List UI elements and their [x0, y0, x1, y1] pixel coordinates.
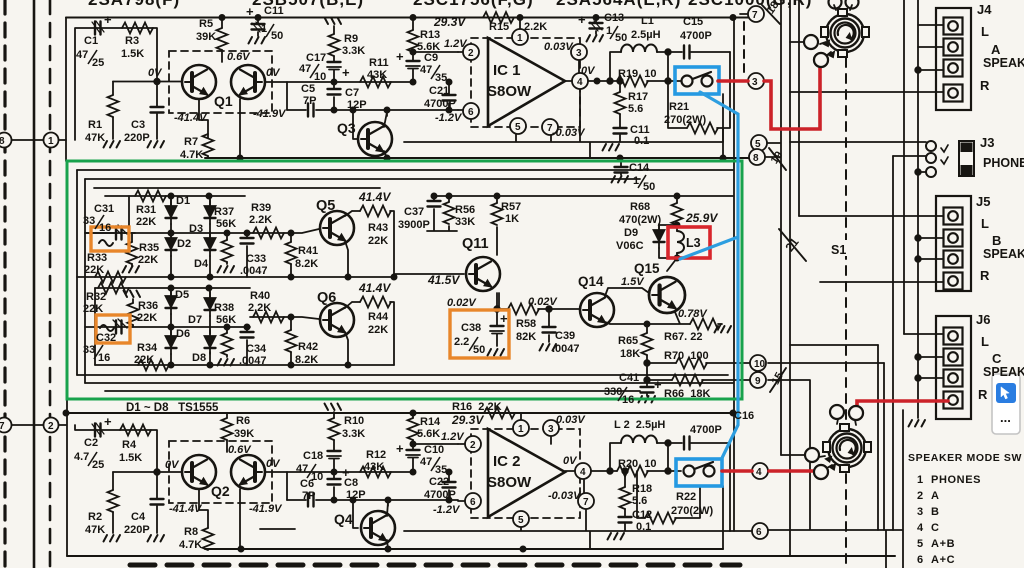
svg-text:S1: S1 [831, 243, 846, 257]
svg-text:1: 1 [261, 23, 267, 35]
svg-text:0.03V: 0.03V [544, 41, 574, 53]
svg-text:L3: L3 [686, 236, 701, 250]
svg-text:2.5µH: 2.5µH [631, 29, 661, 41]
svg-text:1.2V: 1.2V [441, 431, 465, 443]
svg-text:29.3V: 29.3V [451, 413, 484, 427]
svg-text:Q15: Q15 [634, 261, 660, 276]
svg-text:Q6: Q6 [317, 290, 336, 306]
svg-text:8.2K: 8.2K [295, 258, 318, 270]
svg-text:2: 2 [48, 421, 54, 432]
svg-text:-0.03V: -0.03V [552, 127, 586, 139]
svg-text:C37: C37 [404, 206, 424, 218]
svg-text:8.2K: 8.2K [295, 354, 318, 366]
svg-text:56K: 56K [216, 218, 236, 230]
svg-text:J4: J4 [977, 2, 992, 17]
svg-text:C18: C18 [303, 450, 323, 462]
svg-text:1.5V: 1.5V [621, 276, 645, 288]
svg-text:2SA564A(E,R): 2SA564A(E,R) [556, 0, 681, 9]
svg-text:6 A+C: 6 A+C [917, 554, 955, 566]
svg-text:1.5K: 1.5K [121, 48, 144, 60]
svg-text:41.4V: 41.4V [358, 190, 391, 204]
svg-text:R18: R18 [632, 483, 652, 495]
svg-text:R58: R58 [516, 318, 536, 330]
svg-text:3.3K: 3.3K [342, 428, 365, 440]
svg-text:0.02V: 0.02V [528, 296, 558, 308]
svg-text:C8: C8 [344, 477, 358, 489]
svg-text:4.7: 4.7 [74, 451, 89, 463]
svg-text:0V: 0V [563, 455, 578, 467]
svg-text:50: 50 [473, 344, 485, 356]
svg-text:R7: R7 [184, 136, 198, 148]
svg-text:R20 10: R20 10 [618, 458, 657, 470]
svg-text:33: 33 [83, 215, 95, 227]
svg-text:L: L [981, 334, 989, 349]
svg-text:Q4: Q4 [334, 511, 353, 527]
svg-text:R34: R34 [137, 342, 158, 354]
svg-text:5: 5 [518, 515, 524, 526]
svg-text:R16 2.2K: R16 2.2K [452, 401, 502, 413]
svg-text:R19 10: R19 10 [618, 68, 657, 80]
svg-text:B: B [992, 233, 1001, 248]
svg-text:SPEAK: SPEAK [983, 247, 1024, 261]
svg-text:D7: D7 [188, 314, 202, 326]
svg-text:R65: R65 [618, 335, 638, 347]
svg-text:D3: D3 [189, 223, 203, 235]
svg-text:C12: C12 [632, 509, 652, 521]
svg-text:Q1: Q1 [214, 93, 233, 109]
svg-text:8: 8 [753, 153, 759, 164]
svg-text:R14: R14 [420, 416, 441, 428]
svg-text:+: + [104, 414, 112, 429]
svg-text:C41: C41 [619, 372, 639, 384]
svg-text:C5: C5 [301, 83, 315, 95]
svg-text:R10: R10 [344, 415, 364, 427]
svg-text:5: 5 [755, 139, 761, 150]
svg-text:C16: C16 [734, 410, 754, 422]
svg-text:8: 8 [0, 136, 5, 147]
svg-text:2SA798(F): 2SA798(F) [88, 0, 180, 9]
svg-text:C10: C10 [424, 444, 444, 456]
svg-text:22K: 22K [84, 264, 104, 276]
svg-text:3: 3 [576, 48, 582, 59]
svg-text:6: 6 [470, 497, 476, 508]
svg-text:C9: C9 [424, 52, 438, 64]
svg-text:C22: C22 [429, 476, 449, 488]
svg-text:4 C: 4 C [917, 522, 940, 534]
svg-text:R43: R43 [368, 222, 388, 234]
svg-text:25: 25 [92, 459, 104, 471]
svg-text:R67. 22: R67. 22 [664, 331, 703, 343]
svg-text:C21: C21 [429, 85, 449, 97]
svg-text:1: 1 [48, 136, 54, 147]
svg-text:C15: C15 [683, 16, 703, 28]
svg-text:.0047: .0047 [552, 343, 580, 355]
svg-text:D4: D4 [194, 258, 209, 270]
svg-text:3900P: 3900P [398, 219, 430, 231]
svg-text:2.2: 2.2 [454, 336, 469, 348]
svg-text:3 B: 3 B [917, 506, 940, 518]
svg-text:J3: J3 [980, 135, 994, 150]
svg-text:22K: 22K [134, 354, 154, 366]
svg-text:16: 16 [99, 222, 111, 234]
svg-text:7: 7 [752, 10, 758, 21]
svg-text:29.3V: 29.3V [433, 15, 466, 29]
svg-text:C4: C4 [131, 511, 146, 523]
svg-text:22K: 22K [368, 235, 388, 247]
svg-text:SPEAK: SPEAK [983, 365, 1024, 379]
svg-text:R33: R33 [87, 252, 107, 264]
svg-text:R11: R11 [369, 57, 389, 69]
svg-text:R36: R36 [138, 300, 158, 312]
svg-text:16: 16 [98, 352, 110, 364]
svg-text:L: L [981, 24, 989, 39]
svg-text:R: R [980, 268, 990, 283]
svg-text:-0.03V: -0.03V [548, 490, 582, 502]
svg-text:2: 2 [470, 440, 476, 451]
svg-text:4700P: 4700P [424, 489, 456, 501]
svg-text:0.6V: 0.6V [228, 444, 252, 456]
svg-text:R41: R41 [298, 245, 318, 257]
svg-text:6: 6 [468, 107, 474, 118]
svg-text:47: 47 [420, 456, 432, 468]
svg-text:D1 ~ D8 TS1555: D1 ~ D8 TS1555 [126, 402, 219, 414]
svg-text:39K: 39K [234, 428, 254, 440]
svg-text:47K: 47K [85, 132, 105, 144]
svg-text:R31: R31 [136, 204, 156, 216]
svg-text:4: 4 [580, 467, 586, 478]
svg-text:1: 1 [518, 424, 524, 435]
svg-text:1K: 1K [505, 213, 519, 225]
svg-text:330: 330 [604, 386, 622, 398]
svg-text:-41.9V: -41.9V [253, 108, 287, 120]
svg-text:S8OW: S8OW [487, 474, 532, 491]
svg-text:R38: R38 [214, 302, 234, 314]
svg-text:SPEAK: SPEAK [983, 56, 1024, 70]
svg-text:R15: R15 [489, 21, 509, 33]
svg-text:C: C [992, 351, 1002, 366]
svg-text:270(2W): 270(2W) [664, 114, 707, 126]
svg-text:12P: 12P [347, 99, 367, 111]
svg-text:47: 47 [299, 63, 311, 75]
svg-text:R3: R3 [125, 35, 139, 47]
svg-text:R12: R12 [366, 449, 386, 461]
svg-text:R6: R6 [236, 415, 250, 427]
svg-text:C11: C11 [264, 5, 284, 17]
svg-text:4.7K: 4.7K [179, 539, 202, 551]
svg-text:5.6K: 5.6K [417, 428, 440, 440]
svg-text:C6: C6 [300, 478, 314, 490]
svg-text:A: A [991, 42, 1001, 57]
svg-text:D2: D2 [177, 238, 191, 250]
svg-text:2: 2 [468, 48, 474, 59]
svg-text:C13: C13 [604, 12, 624, 24]
svg-text:10: 10 [314, 71, 326, 83]
svg-text:12P: 12P [346, 489, 366, 501]
svg-text:0.1: 0.1 [634, 135, 649, 147]
svg-text:C38: C38 [461, 322, 481, 334]
svg-text:R40: R40 [250, 290, 270, 302]
svg-text:...: ... [1000, 410, 1011, 425]
svg-text:43K: 43K [364, 461, 384, 473]
svg-text:220P: 220P [124, 132, 150, 144]
svg-text:C2: C2 [84, 437, 98, 449]
svg-text:2.2K: 2.2K [248, 302, 271, 314]
svg-text:+: + [500, 311, 508, 326]
svg-text:4.7K: 4.7K [180, 149, 203, 161]
svg-text:R39: R39 [251, 202, 271, 214]
svg-text:1 PHONES: 1 PHONES [917, 474, 981, 486]
svg-text:R70 100: R70 100 [664, 350, 709, 362]
svg-text:R8: R8 [184, 526, 198, 538]
svg-text:56K: 56K [216, 314, 236, 326]
svg-text:6: 6 [756, 527, 762, 538]
svg-text:0V: 0V [266, 67, 281, 79]
svg-text:R4: R4 [122, 439, 137, 451]
svg-text:47: 47 [296, 463, 308, 475]
svg-text:3.3K: 3.3K [342, 45, 365, 57]
svg-text:R57: R57 [501, 201, 521, 213]
svg-text:4: 4 [756, 467, 762, 478]
svg-text:D1: D1 [176, 195, 190, 207]
svg-text:R68: R68 [630, 201, 650, 213]
svg-text:R22: R22 [676, 491, 696, 503]
svg-text:2 A: 2 A [917, 490, 940, 502]
svg-text:16: 16 [622, 394, 634, 406]
svg-text:.0047: .0047 [239, 355, 267, 367]
svg-text:35: 35 [435, 72, 447, 84]
svg-text:2SC1756(F,G): 2SC1756(F,G) [413, 0, 534, 9]
svg-text:0.03V: 0.03V [556, 414, 586, 426]
svg-text:22K: 22K [138, 254, 158, 266]
svg-text:7: 7 [0, 421, 5, 432]
svg-text:0V: 0V [165, 459, 180, 471]
svg-text:1: 1 [633, 175, 639, 187]
svg-text:R44: R44 [368, 311, 389, 323]
svg-text:R2: R2 [88, 511, 102, 523]
svg-text:-1.2V: -1.2V [435, 112, 463, 124]
svg-text:0V: 0V [148, 67, 163, 79]
svg-text:R66 18K: R66 18K [664, 388, 711, 400]
svg-text:0.6V: 0.6V [227, 51, 251, 63]
svg-text:7: 7 [583, 497, 589, 508]
svg-text:C3: C3 [131, 119, 145, 131]
svg-text:22K: 22K [137, 312, 157, 324]
svg-text:S8OW: S8OW [487, 83, 532, 100]
svg-text:4: 4 [577, 77, 583, 88]
svg-text:1.2V: 1.2V [444, 38, 468, 50]
svg-text:C39: C39 [555, 330, 575, 342]
svg-text:7: 7 [547, 123, 553, 134]
svg-text:-41.9V: -41.9V [249, 503, 283, 515]
svg-text:43K: 43K [367, 69, 387, 81]
svg-text:+: + [104, 12, 112, 27]
svg-text:7P: 7P [302, 490, 315, 502]
svg-text:J5: J5 [976, 194, 990, 209]
svg-text:-41.4V: -41.4V [174, 112, 208, 124]
svg-text:1: 1 [517, 33, 523, 44]
svg-text:50: 50 [271, 30, 283, 42]
svg-text:+: + [396, 441, 404, 456]
svg-text:C33: C33 [246, 253, 266, 265]
svg-text:C14: C14 [629, 162, 650, 174]
svg-text:R1: R1 [88, 119, 102, 131]
svg-text:D8: D8 [192, 352, 206, 364]
svg-text:47: 47 [420, 64, 432, 76]
svg-text:41.4V: 41.4V [358, 281, 391, 295]
svg-text:C7: C7 [345, 87, 359, 99]
svg-text:-41.4V: -41.4V [169, 503, 203, 515]
svg-text:3: 3 [548, 424, 554, 435]
svg-text:4700P: 4700P [424, 98, 456, 110]
svg-text:2SC1000(G,R): 2SC1000(G,R) [688, 0, 812, 9]
svg-text:50: 50 [643, 181, 655, 193]
svg-text:PHONE: PHONE [983, 156, 1024, 170]
svg-text:R5: R5 [199, 18, 213, 30]
svg-text:33: 33 [83, 344, 95, 356]
svg-text:1: 1 [606, 25, 612, 37]
svg-text:C1: C1 [84, 35, 98, 47]
svg-text:Q5: Q5 [316, 198, 335, 214]
svg-text:5.6: 5.6 [628, 103, 643, 115]
svg-text:4700P: 4700P [690, 424, 722, 436]
svg-text:R32: R32 [86, 291, 106, 303]
svg-text:33K: 33K [455, 216, 475, 228]
svg-text:25.9V: 25.9V [685, 211, 718, 225]
svg-text:0.78V: 0.78V [678, 308, 708, 320]
svg-text:10: 10 [754, 359, 766, 370]
svg-text:18K: 18K [620, 348, 640, 360]
svg-text:22K: 22K [136, 216, 156, 228]
svg-text:IC 1: IC 1 [493, 62, 521, 79]
svg-text:0V: 0V [266, 458, 281, 470]
svg-text:Q2: Q2 [211, 483, 230, 499]
svg-text:22K: 22K [83, 303, 103, 315]
svg-text:+: + [654, 377, 662, 392]
svg-text:V06C: V06C [616, 240, 644, 252]
svg-text:5 A+B: 5 A+B [917, 538, 955, 550]
svg-text:Q11: Q11 [462, 236, 489, 252]
svg-text:+: + [578, 12, 586, 27]
svg-text:+: + [246, 4, 254, 19]
svg-text:J6: J6 [976, 312, 990, 327]
svg-text:0.1: 0.1 [636, 521, 651, 533]
svg-text:41.5V: 41.5V [427, 273, 460, 287]
svg-text:R: R [978, 387, 988, 402]
svg-text:C34: C34 [246, 343, 267, 355]
svg-text:220P: 220P [124, 524, 150, 536]
svg-text:3: 3 [752, 77, 758, 88]
svg-text:470(2W): 470(2W) [619, 214, 662, 226]
svg-text:+: + [396, 49, 404, 64]
svg-text:1.5K: 1.5K [119, 452, 142, 464]
svg-text:R21: R21 [669, 101, 689, 113]
svg-text:Q14: Q14 [578, 274, 604, 289]
svg-text:4700P: 4700P [680, 30, 712, 42]
svg-text:R13: R13 [420, 29, 440, 41]
svg-text:L1: L1 [641, 15, 654, 27]
svg-text:5: 5 [515, 122, 521, 133]
svg-text:5.6: 5.6 [632, 495, 647, 507]
svg-text:.0047: .0047 [240, 265, 268, 277]
svg-text:2.2K: 2.2K [524, 21, 547, 33]
svg-text:39K: 39K [196, 31, 216, 43]
svg-text:R17: R17 [628, 91, 648, 103]
svg-text:7P: 7P [303, 95, 316, 107]
svg-text:22K: 22K [368, 324, 388, 336]
svg-text:25: 25 [92, 57, 104, 69]
svg-text:C32: C32 [96, 332, 116, 344]
svg-text:35: 35 [435, 464, 447, 476]
svg-text:50: 50 [615, 32, 627, 44]
svg-text:2.2K: 2.2K [249, 214, 272, 226]
svg-text:L: L [981, 216, 989, 231]
svg-text:D6: D6 [176, 328, 190, 340]
svg-text:R37: R37 [214, 206, 234, 218]
svg-text:Q3: Q3 [337, 120, 356, 136]
svg-text:270(2W): 270(2W) [671, 505, 714, 517]
svg-text:0.02V: 0.02V [447, 297, 477, 309]
svg-text:47K: 47K [85, 524, 105, 536]
svg-text:D5: D5 [175, 289, 189, 301]
svg-text:R9: R9 [344, 33, 358, 45]
svg-text:IC 2: IC 2 [493, 453, 521, 470]
svg-text:C31: C31 [94, 203, 114, 215]
svg-text:47: 47 [76, 49, 88, 61]
svg-text:R42: R42 [298, 341, 318, 353]
svg-text:+: + [342, 65, 350, 80]
svg-text:R: R [980, 78, 990, 93]
svg-text:L 2 2.5µH: L 2 2.5µH [614, 419, 665, 431]
svg-text:9: 9 [755, 376, 761, 387]
svg-text:SPEAKER MODE SW: SPEAKER MODE SW [908, 452, 1022, 464]
svg-text:D9: D9 [624, 227, 638, 239]
svg-text:0V: 0V [581, 65, 596, 77]
svg-text:R35: R35 [139, 242, 159, 254]
svg-text:R56: R56 [455, 204, 475, 216]
svg-text:82K: 82K [516, 331, 536, 343]
svg-text:-1.2V: -1.2V [433, 504, 461, 516]
